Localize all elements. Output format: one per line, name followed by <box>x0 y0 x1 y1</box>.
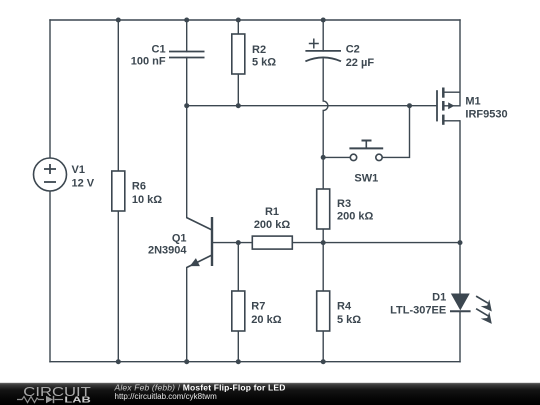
svg-text:20 kΩ: 20 kΩ <box>251 314 281 326</box>
LED light arrows <box>481 299 492 311</box>
wire C1 bottom lead <box>186 58 188 106</box>
svg-text:Alex Feb (febb) / Mosfet Flip-: Alex Feb (febb) / Mosfet Flip-Flop for L… <box>114 383 286 393</box>
svg-text:R3: R3 <box>337 198 351 210</box>
wire Q1 base lead <box>212 242 252 244</box>
node bottom R4 <box>321 359 326 364</box>
svg-text:C1: C1 <box>152 43 166 55</box>
wire R6 bottom lead <box>117 211 119 362</box>
svg-text:22 µF: 22 µF <box>346 57 375 69</box>
wire C2 top lead <box>322 20 324 51</box>
wire R1 right lead to right rail <box>292 242 460 244</box>
node top R6 <box>116 18 121 23</box>
wire R2 top lead <box>237 20 239 34</box>
switch SW1 <box>349 141 383 161</box>
wire left rail lower <box>49 191 51 362</box>
node top R2 <box>236 18 241 23</box>
wire R6 top lead <box>117 20 119 171</box>
svg-text:5 kΩ: 5 kΩ <box>252 57 276 69</box>
svg-text:2N3904: 2N3904 <box>148 245 187 257</box>
voltage source V1 <box>34 158 67 191</box>
node top C1 <box>184 18 189 23</box>
svg-text:200 kΩ: 200 kΩ <box>254 219 291 231</box>
svg-text:200 kΩ: 200 kΩ <box>337 211 374 223</box>
wire C2 bottom lead with hop over middle rail <box>323 59 328 157</box>
svg-text:M1: M1 <box>465 95 480 107</box>
node mid R2 <box>236 103 241 108</box>
resistor R6 <box>112 171 125 211</box>
node top C2 <box>321 18 326 23</box>
svg-text:R7: R7 <box>251 301 265 313</box>
capacitor C1 <box>169 52 205 58</box>
resistor R1 <box>252 236 292 249</box>
svg-text:IRF9530: IRF9530 <box>465 109 507 121</box>
wire Q1 emitter lead <box>186 268 188 362</box>
svg-text:SW1: SW1 <box>354 173 378 185</box>
transistor Q1 <box>187 217 212 267</box>
node bottom R6 <box>116 359 121 364</box>
svg-text:10 kΩ: 10 kΩ <box>132 194 162 206</box>
resistor R3 <box>317 189 330 229</box>
wire R4 bottom lead <box>322 331 324 362</box>
wire left rail upper <box>49 20 51 158</box>
resistor R7 <box>232 291 245 331</box>
wire top rail <box>50 19 460 21</box>
wire C1 top lead <box>186 20 188 52</box>
svg-text:D1: D1 <box>432 291 446 303</box>
wire Q1 collector lead <box>186 106 188 218</box>
wire R3 top lead <box>322 157 324 189</box>
svg-text:http://circuitlab.com/cyk8twm: http://circuitlab.com/cyk8twm <box>115 392 218 401</box>
wire right rail (D1 to bottom) <box>459 311 461 361</box>
wire bottom rail <box>50 361 460 363</box>
svg-text:5 kΩ: 5 kΩ <box>337 314 361 326</box>
svg-text:R4: R4 <box>337 301 352 313</box>
resistor R2 <box>232 34 245 74</box>
wire SW1 right lead <box>382 106 409 158</box>
svg-text:LTL-307EE: LTL-307EE <box>390 304 446 316</box>
node base R7 <box>236 240 241 245</box>
wire R4 top lead <box>322 243 324 291</box>
resistor R4 <box>317 291 330 331</box>
wire right rail top (to M1 source) <box>459 20 461 106</box>
node mid SW1 <box>407 103 412 108</box>
wire middle rail to gate <box>187 105 437 107</box>
node right rail <box>458 240 463 245</box>
wire R2 bottom lead <box>237 74 239 106</box>
wire R7 bottom lead <box>237 331 239 362</box>
svg-text:LAB: LAB <box>64 394 91 404</box>
svg-text:R6: R6 <box>132 181 146 193</box>
svg-text:12 V: 12 V <box>72 178 95 190</box>
node mid C1 <box>184 103 189 108</box>
node bottom Q1 <box>184 359 189 364</box>
wire R7 top lead <box>237 243 239 291</box>
wire R3 bottom lead <box>322 229 324 243</box>
svg-text:R1: R1 <box>265 206 279 218</box>
node SW1 left <box>321 155 326 160</box>
svg-text:100 nF: 100 nF <box>131 56 166 68</box>
svg-text:R2: R2 <box>252 44 266 56</box>
wire SW1 left lead <box>323 156 350 158</box>
mosfet M1 (PMOS) <box>437 88 460 125</box>
wire right rail (M1 drain to D1) <box>459 121 461 294</box>
node bottom R7 <box>236 359 241 364</box>
node base R4 <box>321 240 326 245</box>
C2 plus polarity mark <box>309 39 319 49</box>
svg-text:Q1: Q1 <box>172 232 187 244</box>
capacitor C2 (polarized) <box>305 51 341 61</box>
LED D1 <box>452 294 469 309</box>
svg-text:V1: V1 <box>72 164 85 176</box>
svg-text:C2: C2 <box>346 44 360 56</box>
